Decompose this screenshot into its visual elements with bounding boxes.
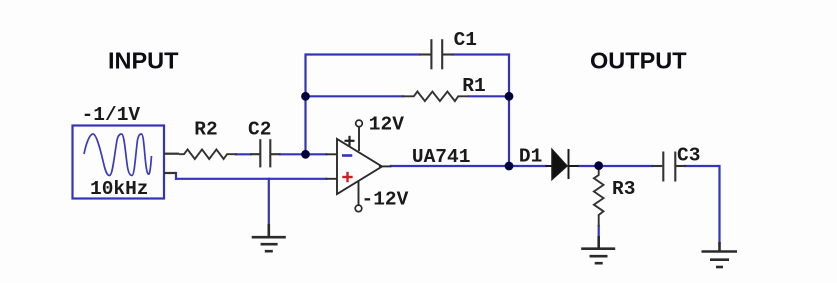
- svg-text:C2: C2: [248, 119, 271, 141]
- svg-text:-1/1V: -1/1V: [82, 104, 141, 126]
- svg-text:C1: C1: [454, 29, 477, 51]
- svg-text:R2: R2: [194, 119, 217, 141]
- svg-text:12V: 12V: [369, 113, 404, 135]
- svg-text:UA741: UA741: [412, 146, 471, 168]
- svg-text:R3: R3: [612, 178, 635, 200]
- svg-text:INPUT: INPUT: [108, 48, 179, 74]
- svg-text:R1: R1: [462, 75, 485, 97]
- svg-text:D1: D1: [519, 146, 542, 168]
- svg-text:C3: C3: [677, 144, 700, 166]
- svg-text:OUTPUT: OUTPUT: [590, 48, 687, 74]
- svg-text:10kHz: 10kHz: [90, 178, 149, 200]
- svg-text:-12V: -12V: [362, 188, 409, 210]
